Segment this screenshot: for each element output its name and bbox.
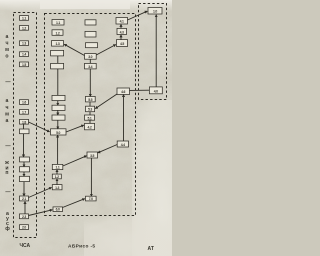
svg-text:4.4: 4.4 — [121, 143, 125, 147]
wire B8 to B9 — [89, 120, 91, 123]
wire A9 to B9 — [66, 125, 84, 132]
block L10 — [20, 157, 30, 162]
svg-text:1.5: 1.5 — [22, 63, 26, 67]
block A7 — [52, 105, 65, 110]
svg-text:2.3: 2.3 — [22, 215, 26, 219]
svg-text:3.0: 3.0 — [88, 55, 92, 59]
block C2 — [117, 28, 127, 34]
block B9 4.2 — [85, 123, 95, 129]
block C3 — [117, 40, 128, 47]
svg-text:5.3: 5.3 — [88, 108, 92, 112]
svg-text:о: о — [5, 54, 8, 60]
block B4 3.0 — [85, 54, 97, 60]
paper background — [0, 0, 172, 256]
block B11 7.0 — [86, 196, 97, 201]
block L6 — [20, 100, 29, 105]
svg-text:4.6: 4.6 — [121, 90, 125, 94]
wire A12 to A11 — [56, 179, 58, 185]
svg-text:АБРисо -5: АБРисо -5 — [68, 244, 95, 250]
dashed frame right block — [139, 4, 167, 100]
block B1 — [85, 20, 96, 25]
svg-text:ч: ч — [5, 105, 8, 111]
wire A10 to A9 — [57, 135, 59, 164]
svg-text:м: м — [5, 111, 9, 117]
wire L13 to A12 — [29, 188, 52, 198]
wire C2 to C1 — [120, 24, 122, 28]
wire B4 to B5 — [89, 59, 91, 63]
svg-text:АТ: АТ — [148, 246, 154, 252]
block A13 6.0 — [53, 207, 63, 212]
block R2 — [149, 87, 162, 94]
svg-text:5.1: 5.1 — [87, 116, 91, 120]
svg-text:а: а — [6, 118, 9, 124]
dashed frame left block — [14, 13, 37, 238]
wire B6 to B7 — [89, 102, 91, 106]
svg-text:ф: ф — [5, 225, 10, 232]
svg-text:5.5: 5.5 — [88, 98, 92, 102]
block A12 — [52, 185, 62, 190]
wire A13 to B11 — [63, 199, 85, 208]
svg-text:5.0: 5.0 — [56, 131, 60, 135]
block C1 — [116, 18, 128, 25]
svg-text:ЧСА: ЧСА — [20, 243, 31, 249]
svg-text:—: — — [5, 80, 11, 86]
svg-text:а: а — [6, 34, 9, 40]
svg-text:2.0: 2.0 — [22, 226, 26, 230]
block A4 — [51, 50, 64, 56]
block A2 — [52, 30, 63, 36]
wire B4 to A3 — [64, 44, 84, 55]
svg-text:1.8: 1.8 — [22, 120, 26, 124]
wire A6 to A7 — [57, 101, 59, 106]
block L3 — [20, 41, 29, 46]
wire A11 to A10 — [56, 170, 58, 175]
svg-text:1.4: 1.4 — [22, 53, 26, 57]
svg-text:1.2: 1.2 — [55, 175, 59, 179]
wire A7 to A8 — [57, 110, 59, 115]
block A11 — [52, 174, 61, 179]
block A9 5.0 — [51, 129, 67, 135]
wire B7 to B8 — [89, 112, 91, 115]
svg-text:а: а — [6, 98, 9, 104]
block L11 — [20, 167, 30, 172]
block B7 5.3 — [86, 106, 95, 112]
wire C5 to B10 — [98, 145, 117, 153]
block A6 — [52, 95, 65, 100]
svg-text:6.0: 6.0 — [56, 208, 60, 212]
svg-text:1.6: 1.6 — [22, 101, 26, 105]
svg-text:1.3: 1.3 — [55, 42, 59, 46]
block L2 — [20, 26, 29, 31]
wire B5 to B6 — [89, 69, 91, 97]
wire C3 to C2 — [120, 35, 122, 40]
block L4 — [20, 52, 29, 57]
svg-text:1.7: 1.7 — [22, 110, 26, 114]
svg-text:7.0: 7.0 — [89, 197, 93, 201]
svg-text:1.2: 1.2 — [55, 31, 59, 35]
block L12 — [20, 176, 30, 181]
block C4 4.6 — [117, 88, 130, 95]
wire A4 to A5 — [57, 56, 59, 64]
block B5 3.4 — [85, 63, 97, 69]
block C5 — [117, 141, 128, 147]
svg-text:4.3: 4.3 — [120, 31, 124, 35]
wire A5 to A6 — [57, 69, 59, 96]
block L9 — [20, 129, 30, 134]
svg-text:1.1: 1.1 — [55, 166, 59, 170]
wire C5 to C4 — [123, 95, 125, 142]
svg-text:м: м — [5, 47, 9, 53]
svg-text:1.1: 1.1 — [22, 17, 26, 21]
block B3 — [86, 43, 98, 48]
svg-text:1.2: 1.2 — [22, 26, 26, 30]
block A5 — [51, 63, 64, 69]
wire C4 to B7 — [95, 94, 117, 109]
dashed frame middle block — [45, 14, 136, 216]
block A10 — [52, 164, 63, 169]
wire L8 to L9 — [23, 124, 25, 129]
block A8 — [52, 115, 65, 120]
block B8 5.1 — [85, 115, 95, 120]
wire C1 to R1 — [128, 11, 148, 20]
wire B4 to C3 — [96, 45, 116, 55]
wire L14 to A13 — [29, 210, 53, 216]
block A1 — [52, 20, 64, 26]
wire C4 to R2 — [130, 89, 150, 91]
wire L12 to L13 — [23, 182, 25, 196]
wire B10 to B11 — [90, 158, 92, 196]
wire A10 to B10 — [63, 156, 87, 166]
wire R2 to R1 — [155, 15, 157, 87]
block B10 3.5 — [87, 152, 98, 158]
wire L14 to L13 — [24, 202, 26, 214]
wire L9 to L10 — [23, 134, 25, 157]
block L5 — [20, 62, 29, 67]
block B2 — [85, 31, 96, 37]
svg-text:1.0: 1.0 — [153, 10, 157, 14]
wire L8 to A9 — [29, 122, 50, 132]
svg-text:1.1: 1.1 — [56, 21, 60, 25]
block L15 — [20, 225, 29, 230]
wire L10 to L11 — [23, 162, 25, 167]
block L8 — [20, 119, 29, 124]
block L1 — [20, 16, 29, 21]
svg-text:4.5: 4.5 — [120, 42, 124, 46]
svg-text:—: — — [5, 144, 11, 150]
svg-text:—: — — [5, 190, 11, 196]
svg-text:1.3: 1.3 — [22, 42, 26, 46]
svg-text:1.3: 1.3 — [55, 186, 59, 190]
svg-text:ч: ч — [5, 41, 8, 47]
wire A8 to A9 — [57, 120, 59, 129]
block L13 — [20, 196, 29, 201]
svg-text:4.2: 4.2 — [87, 125, 91, 129]
wire L11 to L12 — [23, 172, 25, 176]
svg-text:3.5: 3.5 — [90, 154, 94, 158]
svg-text:4.1: 4.1 — [120, 20, 124, 24]
svg-text:4.0: 4.0 — [154, 89, 158, 93]
block L14 — [20, 214, 29, 219]
block R1 — [148, 8, 162, 15]
svg-text:3.4: 3.4 — [88, 65, 92, 69]
svg-text:п: п — [5, 170, 8, 176]
block A3 — [52, 41, 64, 47]
block B6 5.5 — [86, 96, 96, 102]
block L7 — [20, 110, 29, 115]
svg-text:2.1: 2.1 — [22, 197, 26, 201]
